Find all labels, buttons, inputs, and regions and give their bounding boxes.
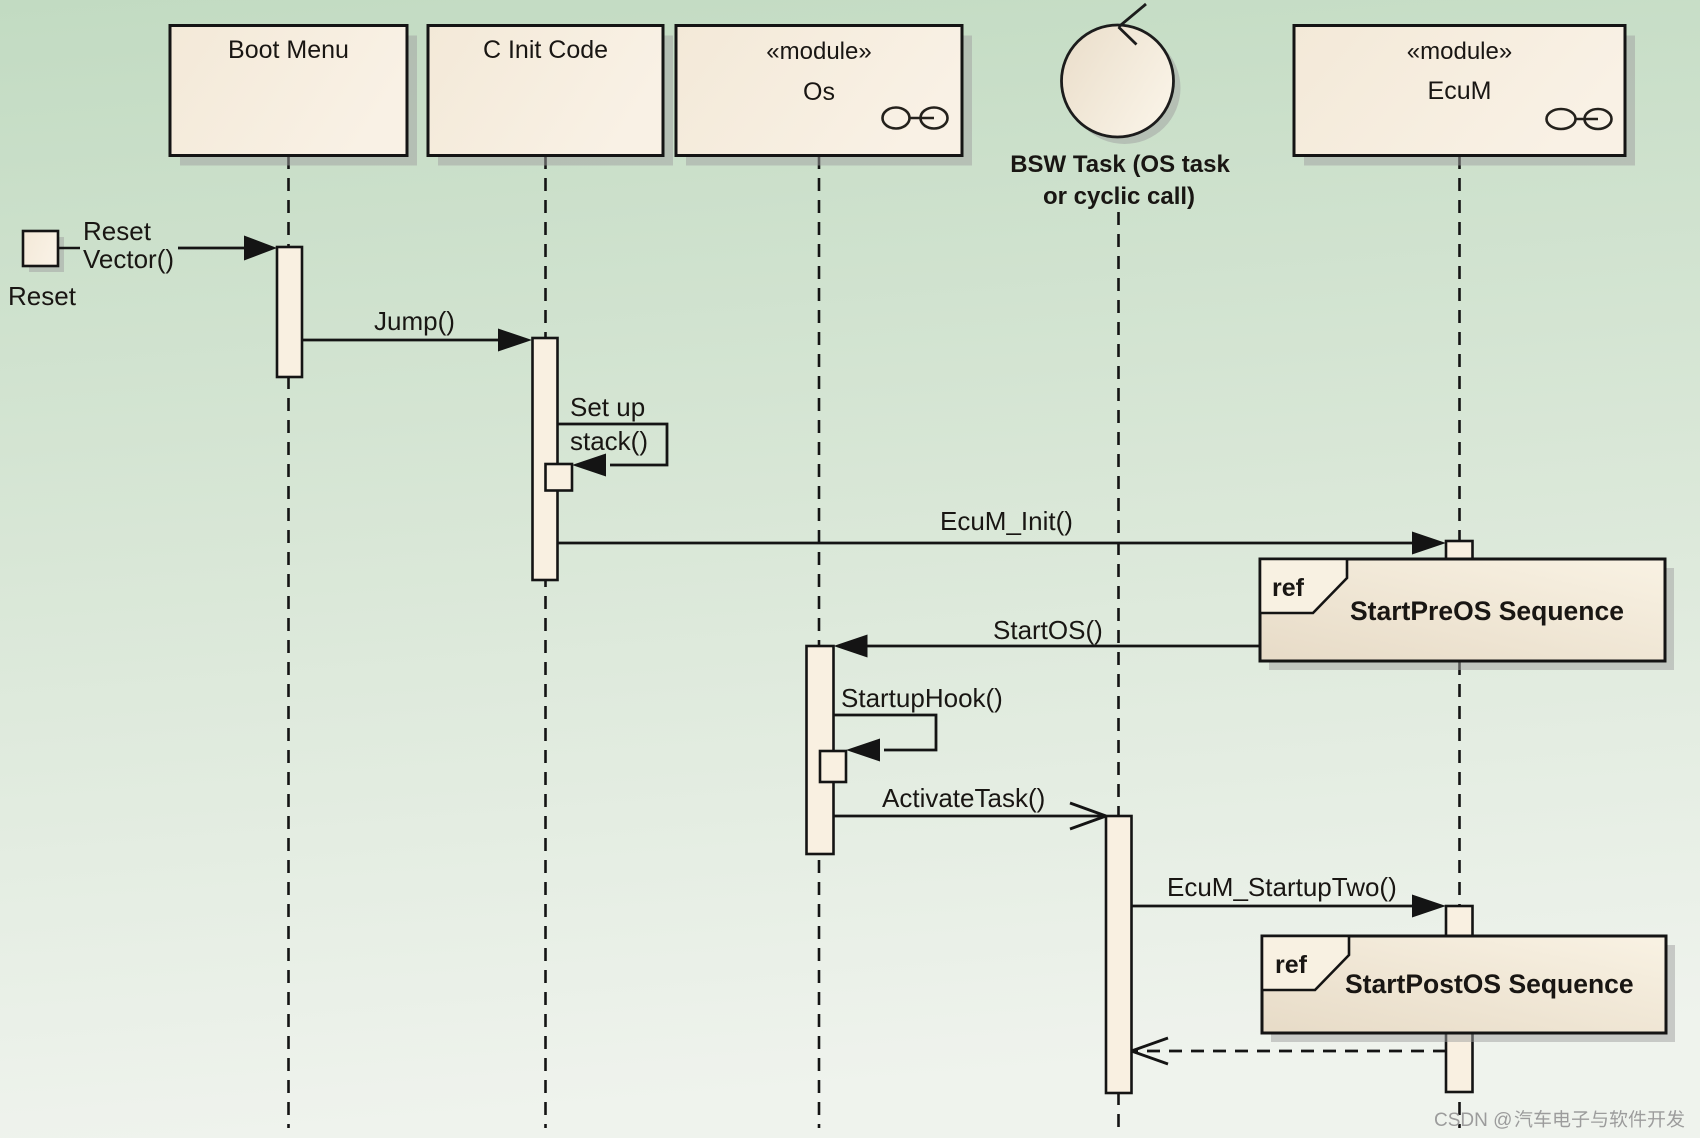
svg-text:Boot Menu: Boot Menu — [228, 36, 349, 64]
lifeline Os — [818, 156, 821, 1128]
lifeline head C Init Code — [428, 26, 673, 166]
svg-text:StartupHook(): StartupHook() — [841, 683, 1003, 713]
message Reset Vector() — [83, 216, 277, 274]
svg-text:StartPreOS Sequence: StartPreOS Sequence — [1350, 596, 1624, 626]
svg-text:ref: ref — [1272, 574, 1305, 602]
arrowhead EcuM_Init — [1412, 532, 1446, 555]
arrowhead EcuM_StartupTwo — [1412, 895, 1446, 918]
message StartupHook() self — [834, 683, 1003, 762]
message StartOS() — [834, 615, 1261, 658]
activation C Init nested — [546, 464, 573, 491]
activation EcuM first — [1446, 541, 1473, 661]
lifeline EcuM — [1458, 156, 1461, 1128]
BSW Task circle body — [1062, 25, 1174, 137]
svg-text:«module»: «module» — [1407, 38, 1512, 65]
svg-text:Jump(): Jump() — [374, 306, 455, 336]
message EcuM_Init() — [557, 506, 1446, 555]
svg-text:Os: Os — [803, 78, 835, 106]
svg-text:ActivateTask(): ActivateTask() — [882, 783, 1045, 813]
svg-text:stack(): stack() — [570, 426, 648, 456]
svg-text:CSDN @: CSDN @ — [1434, 1110, 1512, 1131]
svg-text:Set up: Set up — [570, 392, 645, 422]
pentagon ref label frag1 — [1260, 559, 1347, 613]
fragment ref StartPreOS Sequence — [1260, 559, 1674, 670]
activation C Init Code — [533, 338, 558, 580]
svg-text:Reset: Reset — [83, 216, 152, 246]
message EcuM_StartupTwo() — [1132, 872, 1447, 918]
lifeline BSW Task — [1117, 212, 1120, 1128]
svg-text:Reset: Reset — [8, 281, 77, 311]
actor Reset square — [8, 231, 80, 311]
fragment ref StartPostOS Sequence — [1262, 936, 1675, 1042]
module icon Os — [883, 108, 948, 129]
arrowhead Jump — [498, 329, 532, 352]
arrowhead Set up stack — [572, 454, 606, 477]
svg-text:StartOS(): StartOS() — [993, 615, 1103, 645]
open arrowhead return — [1132, 1038, 1169, 1051]
svg-text:EcuM: EcuM — [1428, 77, 1492, 105]
activation Os nested — [820, 751, 846, 782]
svg-text:«module»: «module» — [766, 38, 871, 65]
module icon EcuM — [1547, 109, 1612, 129]
entry arrow into BSW circle — [1119, 4, 1147, 27]
activation EcuM second — [1446, 906, 1473, 1092]
actor BSW Task circle — [1010, 4, 1230, 210]
watermark CSDN — [1434, 1110, 1684, 1131]
arrowhead StartupHook — [846, 739, 880, 762]
arrowhead StartOS — [834, 635, 868, 658]
svg-text:StartPostOS Sequence: StartPostOS Sequence — [1345, 969, 1634, 999]
activation Boot Menu — [277, 247, 302, 377]
svg-text:EcuM_StartupTwo(): EcuM_StartupTwo() — [1167, 872, 1397, 902]
lifeline head module EcuM — [1294, 26, 1635, 166]
open arrowhead ActivateTask — [1070, 803, 1106, 816]
message Jump() — [302, 306, 532, 352]
message ActivateTask() async — [834, 783, 1107, 829]
lifeline head module Os — [676, 26, 972, 166]
svg-text:BSW Task (OS task: BSW Task (OS task — [1010, 151, 1230, 178]
activation Os — [807, 646, 834, 854]
message return dashed — [1132, 1038, 1447, 1064]
svg-text:or cyclic call): or cyclic call) — [1043, 183, 1195, 210]
stub wire from Reset square — [58, 247, 80, 250]
activation BSW Task — [1106, 816, 1132, 1093]
svg-text:Vector(): Vector() — [83, 244, 174, 274]
svg-text:C Init Code: C Init Code — [483, 36, 608, 64]
Reset square symbol — [23, 231, 58, 266]
pentagon ref label frag2 — [1262, 936, 1349, 990]
arrowhead Reset Vector — [244, 236, 277, 261]
lifeline Boot Menu — [287, 156, 290, 1128]
svg-text:EcuM_Init(): EcuM_Init() — [940, 506, 1073, 536]
lifeline head Boot Menu — [170, 26, 417, 166]
lifeline C Init Code — [544, 156, 547, 1128]
svg-text:ref: ref — [1275, 951, 1308, 979]
message Set up stack() self — [557, 392, 667, 477]
